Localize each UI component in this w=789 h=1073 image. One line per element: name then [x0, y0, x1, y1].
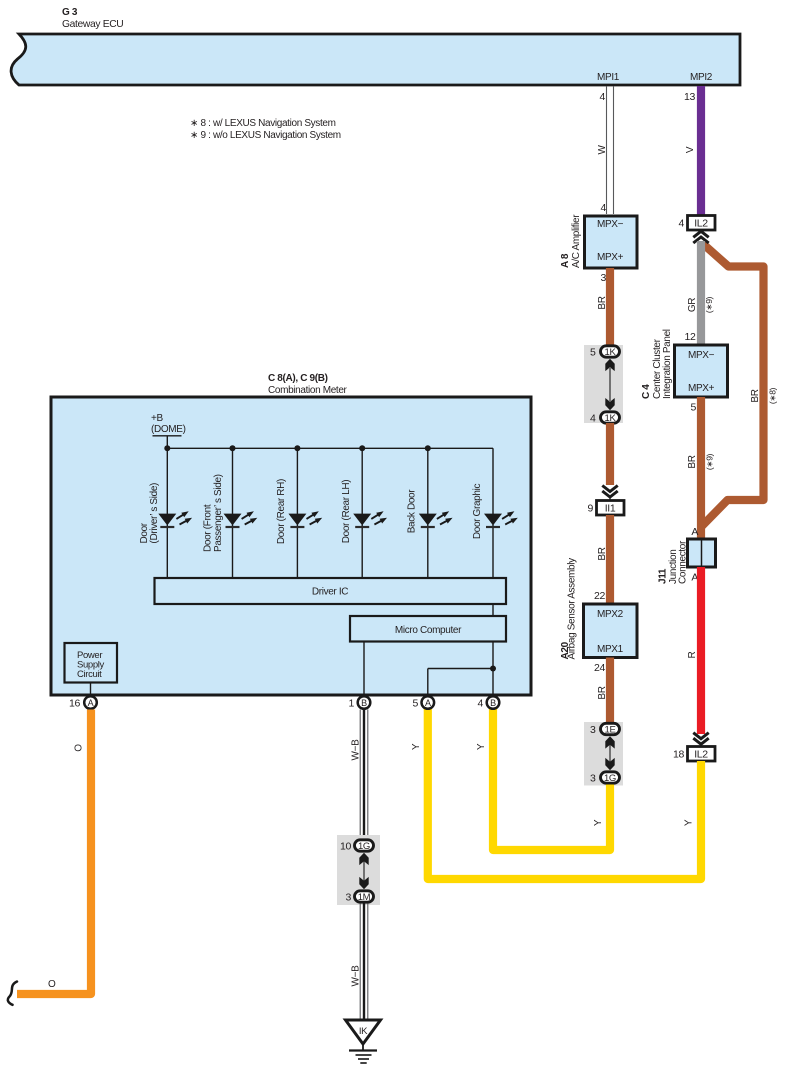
power supply circuit box: [65, 643, 118, 683]
chevron down into IL2 bottom: [693, 733, 708, 739]
connector 1K pin4: [601, 412, 620, 423]
wire BR A20 to 1E: [606, 658, 614, 724]
svg-text:MPI1: MPI1: [597, 72, 620, 83]
svg-text:Y: Y: [593, 819, 604, 826]
svg-text:4: 4: [590, 413, 596, 425]
svg-text:1K: 1K: [605, 413, 617, 424]
svg-text:(∗8): (∗8): [768, 387, 778, 404]
svg-text:Micro Computer: Micro Computer: [395, 625, 462, 636]
junction connector J11: [688, 539, 716, 567]
svg-text:G 3: G 3: [62, 7, 78, 18]
connector 1K pin5: [601, 346, 620, 357]
svg-text:Gateway ECU: Gateway ECU: [62, 19, 123, 30]
junction dots: [164, 445, 170, 451]
LED column 3 wire: [296, 448, 298, 578]
svg-text:5: 5: [413, 698, 419, 710]
svg-text:Airbag Sensor Assembly: Airbag Sensor Assembly: [567, 558, 578, 660]
wire BR II1 to A20: [606, 515, 614, 605]
svg-text:(∗9): (∗9): [705, 453, 715, 470]
svg-text:4: 4: [601, 202, 607, 214]
wire BR A8 to 1K: [606, 268, 614, 346]
connector IL2 bottom: [688, 747, 716, 762]
LED bus: [167, 447, 493, 449]
svg-text:∗ 8 : w/ LEXUS Navigation Syst: ∗ 8 : w/ LEXUS Navigation System: [190, 118, 336, 129]
LED column 4 wire: [361, 448, 363, 578]
micro computer box: [350, 616, 506, 642]
LED D5: [419, 511, 453, 527]
svg-text:1: 1: [349, 698, 355, 710]
svg-text:18: 18: [673, 749, 684, 761]
LED column 2 wire: [232, 448, 234, 578]
pin 16 A: [84, 696, 97, 709]
svg-text:1E: 1E: [605, 725, 616, 736]
wire BR C4 to J11: [697, 397, 705, 539]
svg-text:(Driver’ s Side): (Driver’ s Side): [149, 483, 160, 544]
svg-text:A: A: [88, 698, 94, 708]
pin 5 A: [422, 696, 435, 709]
svg-text:BR: BR: [597, 686, 608, 699]
svg-text:(∗9): (∗9): [704, 296, 714, 313]
LED column 5 wire: [427, 448, 429, 578]
svg-text:A 8: A 8: [560, 253, 571, 268]
svg-text:BR: BR: [597, 547, 608, 560]
svg-text:Door Graphic: Door Graphic: [472, 484, 483, 540]
LED column 6 wire: [492, 448, 494, 578]
svg-text:MPI2: MPI2: [690, 72, 713, 83]
A/C amplifier A8 box: [585, 216, 638, 268]
svg-text:1K: 1K: [605, 347, 617, 358]
svg-text:B: B: [361, 698, 367, 708]
svg-text:II1: II1: [605, 503, 616, 515]
svg-text:4: 4: [679, 218, 685, 230]
svg-text:Integration Panel: Integration Panel: [662, 329, 673, 399]
wire W-B 1B to 1G: [360, 710, 368, 840]
wire R J11 to IL2: [697, 567, 705, 734]
svg-text:R: R: [687, 651, 698, 658]
svg-text:IL2: IL2: [694, 218, 708, 230]
svg-text:Driver IC: Driver IC: [312, 587, 348, 598]
wire Y IL2 to pin5A of meter: [428, 707, 701, 879]
svg-text:3: 3: [601, 272, 607, 284]
ground IK: [346, 1020, 381, 1044]
svg-text:4: 4: [478, 698, 484, 710]
svg-text:MPX+: MPX+: [597, 252, 624, 263]
pin 1 B: [358, 696, 371, 709]
connector 1M pin3: [355, 891, 374, 902]
LED column 1 wire: [166, 448, 168, 578]
svg-text:1G: 1G: [358, 841, 370, 852]
LED D4: [353, 511, 387, 527]
svg-text:5: 5: [590, 347, 596, 359]
svg-text:12: 12: [685, 331, 696, 343]
wire micro to pin 1B: [363, 642, 365, 696]
node dot: [490, 666, 496, 672]
connector IL2 top: [688, 216, 716, 231]
svg-text:A: A: [691, 526, 698, 538]
splice block 1G/1M gray area: [337, 835, 380, 905]
svg-text:MPX+: MPX+: [688, 383, 715, 394]
svg-text:C 8(A), C 9(B): C 8(A), C 9(B): [268, 373, 328, 384]
svg-text:W−B: W−B: [351, 965, 362, 987]
svg-text:24: 24: [594, 662, 605, 674]
svg-text:Circuit: Circuit: [77, 669, 102, 680]
svg-text:MPX1: MPX1: [597, 644, 624, 655]
svg-text:V: V: [685, 146, 696, 153]
svg-text:A/C Amplifier: A/C Amplifier: [571, 214, 582, 268]
wire GR IL2 to C4: [697, 241, 705, 346]
svg-text:3: 3: [346, 892, 352, 904]
svg-text:MPX2: MPX2: [597, 609, 624, 620]
svg-text:Door (Front: Door (Front: [202, 504, 213, 552]
connector 1G pin3: [601, 772, 620, 783]
svg-text:3: 3: [590, 724, 596, 736]
svg-text:Passenger’ s Side): Passenger’ s Side): [213, 474, 224, 552]
splice arrows 1G-1M: [363, 860, 365, 882]
connector 1G pin10: [355, 840, 374, 851]
wire BR 1K to II1: [606, 423, 614, 485]
svg-text:IK: IK: [359, 1026, 368, 1037]
svg-text:1G: 1G: [604, 773, 616, 784]
link driver IC to micro computer: [492, 604, 494, 616]
svg-text:16: 16: [69, 698, 80, 710]
svg-text:Door (Rear LH): Door (Rear LH): [341, 480, 352, 543]
wire Y 1G down to pin4B of meter: [493, 707, 610, 850]
LED D1: [158, 511, 192, 527]
svg-text:MPX−: MPX−: [688, 350, 715, 361]
wire micro to pin 4B with branch to 5A: [492, 642, 494, 696]
svg-text:J11: J11: [658, 568, 669, 584]
pin 4 B: [487, 696, 500, 709]
svg-text:C 4: C 4: [641, 384, 652, 399]
svg-text:O: O: [74, 744, 85, 752]
connector II1: [597, 501, 625, 516]
svg-text:+B: +B: [151, 413, 163, 424]
svg-text:Y: Y: [684, 819, 695, 826]
svg-text:3: 3: [590, 773, 596, 785]
driver IC box: [155, 578, 507, 604]
center cluster integration panel C4 box: [675, 345, 728, 397]
svg-text:GR: GR: [687, 298, 698, 312]
wire W-B 1M to ground: [360, 904, 368, 1021]
svg-text:Door (Rear RH): Door (Rear RH): [276, 479, 287, 544]
svg-text:(DOME): (DOME): [151, 424, 186, 435]
svg-text:Door: Door: [139, 522, 150, 543]
svg-text:B: B: [490, 698, 496, 708]
svg-text:Y: Y: [411, 743, 422, 750]
splice block 1K/1K gray area: [584, 345, 623, 423]
svg-text:Combination Meter: Combination Meter: [268, 385, 348, 396]
svg-text:Back Door: Back Door: [407, 489, 418, 534]
svg-text:BR: BR: [597, 296, 608, 309]
svg-text:22: 22: [594, 590, 605, 602]
splice arrows 1K: [609, 368, 611, 401]
LED D2: [224, 511, 258, 527]
chevron down into II1: [602, 486, 617, 492]
svg-text:4: 4: [600, 91, 606, 103]
svg-text:A: A: [425, 698, 431, 708]
gateway ECU G3 box: [11, 34, 740, 85]
wire O orange: [17, 710, 91, 995]
svg-text:W−B: W−B: [351, 739, 362, 761]
chevron up below IL2: [693, 231, 708, 237]
splice block 1E/1G gray area: [584, 722, 623, 786]
svg-text:MPX−: MPX−: [597, 219, 624, 230]
combination meter box: [51, 397, 531, 695]
svg-text:W: W: [597, 145, 608, 155]
LED D6: [484, 511, 518, 527]
svg-text:∗ 9 : w/o LEXUS Navigation Sys: ∗ 9 : w/o LEXUS Navigation System: [190, 130, 341, 141]
svg-text:BR: BR: [687, 455, 698, 468]
svg-text:13: 13: [684, 91, 695, 103]
svg-text:9: 9: [588, 503, 594, 515]
svg-text:IL2: IL2: [694, 749, 708, 761]
wire V purple gateway to IL2: [697, 86, 705, 216]
svg-text:10: 10: [340, 841, 351, 853]
svg-text:BR: BR: [750, 389, 761, 402]
connector 1E pin3: [601, 723, 620, 734]
svg-text:5: 5: [691, 402, 697, 414]
splice arrows 1E-1G: [609, 744, 611, 762]
wire W gateway to A8 (white wire, double line): [606, 86, 608, 214]
svg-text:Y: Y: [476, 743, 487, 750]
torn end squiggle: [8, 982, 17, 1005]
svg-text:Connector: Connector: [678, 540, 689, 584]
svg-text:1M: 1M: [358, 892, 371, 903]
LED D3: [288, 511, 322, 527]
wire BR branch *8: [702, 243, 764, 527]
svg-text:O: O: [48, 979, 56, 990]
airbag sensor assembly A20 box: [584, 604, 638, 658]
